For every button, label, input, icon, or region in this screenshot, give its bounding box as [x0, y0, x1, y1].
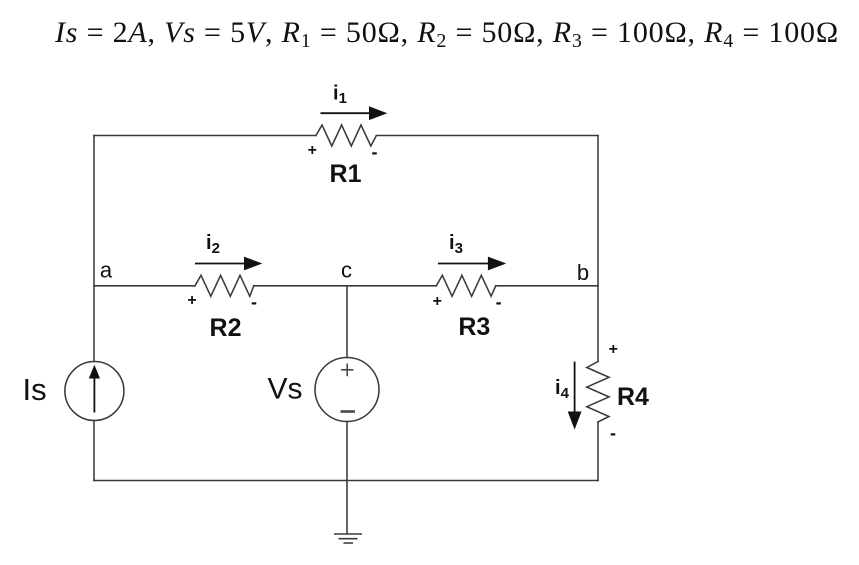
svg-text:i2: i2	[206, 232, 220, 257]
voltage source Vs plus sign	[341, 364, 354, 377]
svg-text:-: -	[372, 142, 378, 162]
wire middle left (node a to R2)	[94, 285, 195, 287]
svg-text:b: b	[577, 260, 589, 285]
wire Vs source to bottom wire	[346, 422, 348, 481]
svg-text:Is: Is	[23, 372, 47, 407]
svg-text:R2: R2	[210, 314, 242, 342]
svg-text:-: -	[610, 423, 616, 443]
svg-text:-: -	[496, 292, 502, 312]
svg-text:+: +	[187, 292, 196, 309]
wire left vertical upper (top wire to Is source)	[93, 136, 95, 362]
resistor R1 zigzag	[316, 125, 376, 146]
wire right vertical lower (R4 to bottom wire)	[597, 422, 599, 481]
current arrow i3	[438, 263, 490, 265]
resistor R2 zigzag	[195, 275, 254, 296]
voltage source Vs circle	[315, 358, 379, 422]
current arrow i2	[195, 263, 246, 265]
wire top-right horizontal segment	[376, 135, 598, 137]
svg-text:i4: i4	[555, 377, 570, 402]
svg-text:-: -	[251, 292, 257, 312]
svg-text:+: +	[308, 142, 317, 159]
svg-text:a: a	[100, 258, 113, 283]
wire node c stem down to Vs source	[346, 286, 348, 358]
current source Is internal arrow	[93, 377, 95, 413]
svg-text:i3: i3	[449, 232, 463, 257]
wire left vertical lower (Is source to bottom wire)	[93, 421, 95, 481]
svg-text:Vs: Vs	[268, 373, 303, 406]
resistor R3 zigzag	[436, 275, 495, 296]
wire bottom horizontal	[94, 480, 598, 482]
svg-text:c: c	[341, 258, 352, 283]
svg-text:i1: i1	[333, 83, 347, 108]
svg-text:R4: R4	[617, 383, 649, 411]
current arrow i1	[321, 112, 372, 114]
wire ground stem	[346, 481, 348, 534]
wire middle center (R2 to node c to R3)	[254, 285, 436, 287]
voltage source Vs minus sign	[341, 410, 356, 413]
current arrow i4	[574, 362, 576, 415]
wire middle right (R3 to node b)	[496, 285, 598, 287]
svg-text:Is = 2A, Vs = 5V, R1 = 50Ω, R2: Is = 2A, Vs = 5V, R1 = 50Ω, R2 = 50Ω, R3…	[54, 16, 839, 52]
svg-text:+: +	[609, 341, 618, 358]
svg-text:R3: R3	[458, 313, 490, 341]
svg-text:+: +	[433, 293, 442, 310]
current source Is circle	[65, 362, 124, 421]
svg-text:R1: R1	[330, 160, 362, 188]
resistor R4 zigzag vertical	[587, 362, 609, 423]
wire right vertical upper (top wire through node b to R4)	[597, 136, 599, 362]
ground symbol	[334, 534, 362, 543]
wire top-left horizontal segment	[94, 135, 316, 137]
